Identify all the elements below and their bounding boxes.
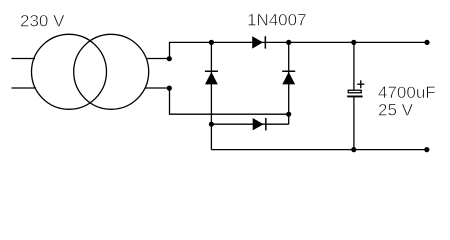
svg-text:4700uF: 4700uF bbox=[378, 83, 436, 102]
svg-text:230 V: 230 V bbox=[20, 11, 65, 30]
svg-text:25 V: 25 V bbox=[378, 101, 414, 120]
svg-text:1N4007: 1N4007 bbox=[247, 11, 307, 30]
